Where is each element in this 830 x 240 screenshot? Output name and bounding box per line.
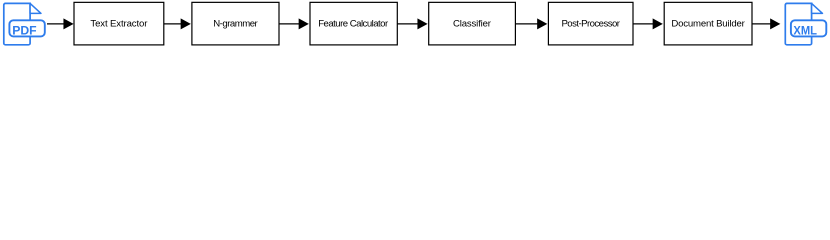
svg-text:Document Builder: Document Builder	[671, 19, 745, 30]
svg-text:N-grammer: N-grammer	[213, 19, 258, 30]
svg-text:Text Extractor: Text Extractor	[90, 19, 148, 30]
svg-text:Post-Processor: Post-Processor	[561, 19, 620, 30]
svg-text:Classifier: Classifier	[453, 19, 492, 30]
svg-text:PDF: PDF	[12, 23, 36, 37]
svg-text:XML: XML	[793, 23, 817, 37]
svg-text:Feature Calculator: Feature Calculator	[318, 19, 389, 30]
